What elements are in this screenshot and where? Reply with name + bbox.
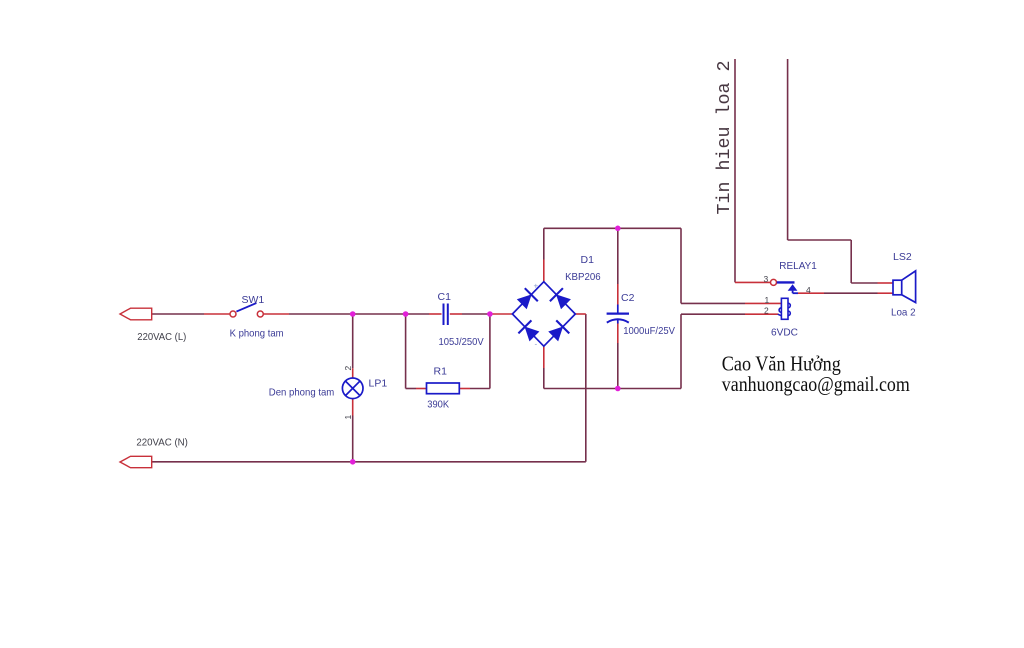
svg-text:Loa 2: Loa 2 [891,307,916,319]
svg-text:C1: C1 [438,291,452,303]
svg-text:LP1: LP1 [369,378,388,390]
svg-text:+: + [534,282,539,291]
svg-text:Den phong tam: Den phong tam [269,387,335,399]
svg-text:SW1: SW1 [242,294,265,306]
svg-text:1: 1 [343,415,353,420]
svg-text:3: 3 [764,274,769,284]
svg-text:LS2: LS2 [893,251,912,263]
svg-text:2: 2 [343,366,353,371]
svg-text:105J/250V: 105J/250V [439,336,484,348]
svg-text:vanhuongcao@gmail.com: vanhuongcao@gmail.com [722,372,910,396]
svg-text:-: - [535,340,538,349]
svg-text:1000uF/25V: 1000uF/25V [623,325,675,337]
svg-text:Tin hieu loa 2: Tin hieu loa 2 [714,61,735,215]
svg-text:KBP206: KBP206 [565,271,601,283]
svg-text:4: 4 [806,285,811,295]
svg-text:C2: C2 [621,292,635,304]
svg-text:D1: D1 [581,254,595,266]
svg-text:K phong tam: K phong tam [230,328,284,340]
svg-text:R1: R1 [434,366,448,378]
svg-text:390K: 390K [427,399,449,411]
svg-text:220VAC (N): 220VAC (N) [136,437,188,449]
svg-text:RELAY1: RELAY1 [779,260,817,272]
svg-text:220VAC (L): 220VAC (L) [137,331,186,343]
svg-text:1: 1 [765,295,770,305]
svg-text:6VDC: 6VDC [771,327,798,339]
svg-text:2: 2 [764,305,769,315]
